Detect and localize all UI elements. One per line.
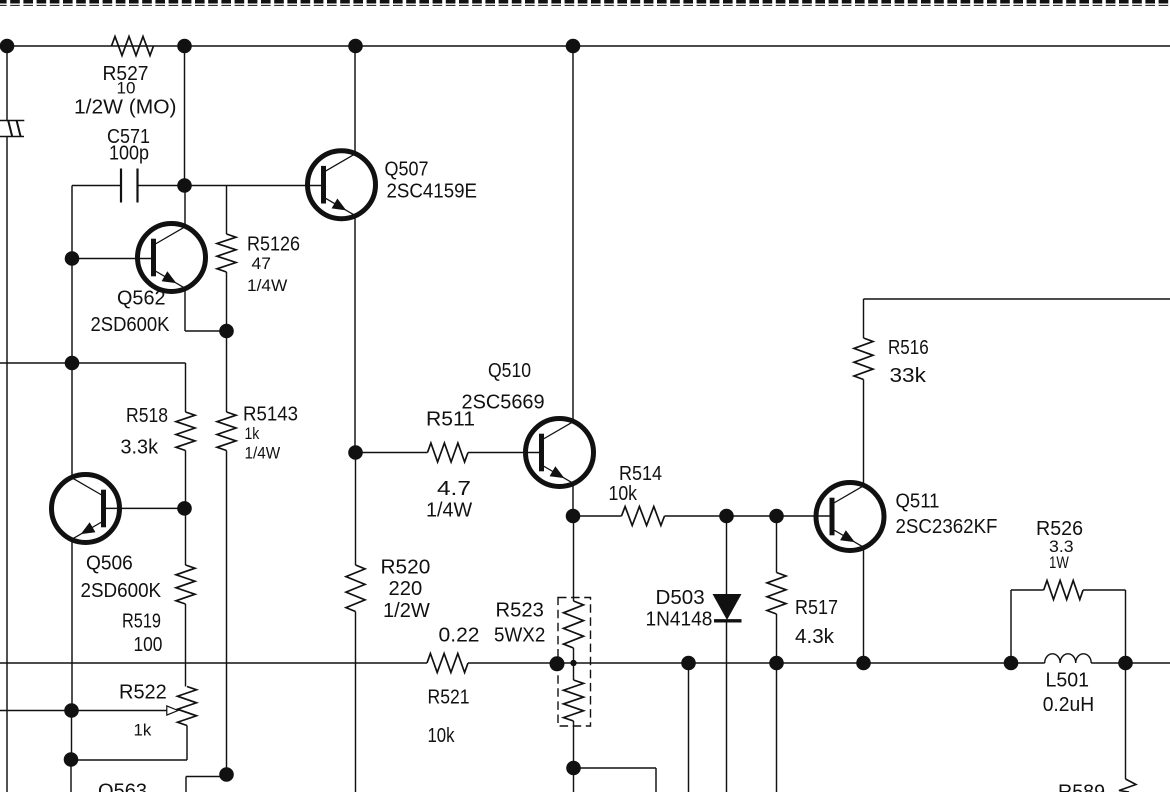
svg-text:R518: R518 — [126, 405, 168, 427]
svg-text:100p: 100p — [109, 143, 149, 165]
node top rail C — [566, 39, 581, 54]
wire R514 node to R517 node — [727, 515, 777, 517]
svg-text:2SD600K: 2SD600K — [91, 314, 171, 336]
resistor R516 — [854, 299, 1170, 387]
wire Q507 emitter column — [354, 216, 356, 453]
svg-text:2SD600K: 2SD600K — [81, 580, 162, 602]
resistor R5143 — [217, 331, 298, 775]
node R522 return — [64, 752, 79, 767]
svg-text:R521: R521 — [428, 687, 470, 709]
svg-text:1/4W: 1/4W — [247, 277, 288, 295]
wire Q562 base — [72, 258, 152, 260]
node R517 bottom — [769, 656, 784, 671]
wire left column lower — [6, 137, 8, 792]
node Q562 base — [65, 251, 80, 266]
svg-text:1W: 1W — [1049, 554, 1069, 572]
wire bus tap 689 down — [688, 663, 690, 792]
node top rail A — [177, 39, 192, 54]
svg-text:R516: R516 — [888, 337, 929, 359]
wire Q511 collector up — [863, 380, 865, 486]
wire C571 node to Q507 base — [185, 185, 323, 187]
resistor R523 — [494, 516, 591, 768]
svg-text:R523: R523 — [496, 600, 544, 622]
svg-text:R519: R519 — [122, 611, 161, 633]
wire Q562 emitter down — [185, 289, 227, 331]
svg-text:4.7: 4.7 — [437, 478, 471, 500]
node left mid — [65, 356, 80, 371]
svg-text:1/2W (MO): 1/2W (MO) — [74, 97, 177, 119]
node Q506 base / R518 / R519 — [177, 501, 192, 516]
wire Q507 emitter column lower — [355, 453, 357, 566]
node bus big — [550, 656, 565, 671]
wire Q506 emitter down — [71, 540, 73, 711]
cable marker — [0, 121, 24, 137]
svg-text:Q510: Q510 — [488, 360, 531, 382]
node bus tap 689 — [681, 656, 696, 671]
svg-text:R589: R589 — [1058, 782, 1105, 792]
svg-text:R5126: R5126 — [247, 234, 300, 256]
svg-text:1k: 1k — [245, 425, 260, 443]
node Q562 emitter / R5126 — [219, 324, 234, 339]
svg-text:Q563: Q563 — [98, 781, 147, 792]
transistor Q510 — [462, 360, 594, 487]
resistor R519 — [122, 508, 195, 686]
node Q511 emitter — [856, 656, 871, 671]
node top rail B — [348, 39, 363, 54]
node R511 branch — [348, 445, 363, 460]
svg-text:R526: R526 — [1036, 518, 1083, 540]
node C571/Q562 collector — [177, 178, 192, 193]
wire R523 bottom right — [574, 768, 657, 792]
wire C571 left to Q562 base node — [71, 186, 73, 259]
svg-text:2SC4159E: 2SC4159E — [387, 181, 478, 203]
wire R517 bottom down — [776, 663, 778, 792]
node Q510 emitter / R514 / R523 — [566, 509, 581, 524]
svg-text:10k: 10k — [428, 725, 456, 747]
resistor R527 — [74, 37, 177, 119]
node R522 wiper — [64, 703, 79, 718]
resistor R589 — [1058, 663, 1136, 792]
resistor R520 — [346, 557, 430, 792]
svg-text:1k: 1k — [134, 722, 153, 740]
svg-text:2SC2362KF: 2SC2362KF — [896, 516, 998, 538]
svg-text:R5143: R5143 — [243, 404, 298, 426]
transistor Q506 — [52, 475, 162, 603]
wire Q511 base — [777, 515, 831, 517]
svg-text:220: 220 — [389, 578, 423, 600]
wire bottom bus — [0, 662, 1170, 664]
svg-text:R517: R517 — [795, 597, 838, 619]
resistor R526 — [1011, 518, 1126, 663]
svg-text:0.2uH: 0.2uH — [1043, 694, 1095, 716]
wire Q562 base node down — [71, 259, 73, 364]
node L501 right — [1118, 656, 1133, 671]
potentiometer R522 — [71, 682, 197, 761]
wire below R522 return — [70, 760, 72, 792]
wire top supply rail — [0, 45, 1170, 47]
transistor Q511 — [816, 483, 998, 551]
svg-text:100: 100 — [134, 634, 163, 656]
wire Q506 base — [102, 507, 185, 509]
svg-text:0.22: 0.22 — [439, 625, 480, 647]
wire wiper node down — [71, 711, 73, 760]
svg-text:D503: D503 — [656, 587, 705, 609]
capacitor C571 — [72, 126, 185, 203]
node R5143 bottom — [219, 767, 234, 782]
svg-text:3.3k: 3.3k — [121, 437, 159, 459]
node top rail left — [0, 39, 14, 54]
resistor R517 — [767, 516, 838, 663]
wire left column upper — [6, 46, 8, 121]
svg-text:Q507: Q507 — [385, 159, 429, 181]
svg-text:10: 10 — [117, 80, 136, 98]
svg-text:R514: R514 — [619, 463, 662, 485]
resistor R514 — [573, 463, 727, 526]
transistor Q563 label — [98, 781, 147, 792]
svg-text:R520: R520 — [381, 557, 431, 579]
svg-text:10k: 10k — [609, 483, 638, 505]
wire Q511 emitter down — [863, 548, 865, 663]
resistor R521 — [427, 625, 480, 748]
svg-text:1/4W: 1/4W — [245, 445, 281, 463]
svg-text:4.3k: 4.3k — [795, 626, 835, 648]
node R523 bottom — [566, 761, 581, 776]
wire R5143 bottom link — [186, 777, 227, 792]
wire Q510 emitter down — [572, 484, 574, 516]
wire Q507 collector up — [354, 46, 356, 153]
transistor Q562 — [91, 224, 206, 337]
wire Q510 collector up — [572, 46, 574, 421]
svg-text:5WX2: 5WX2 — [494, 625, 545, 647]
svg-text:Q506: Q506 — [86, 553, 133, 575]
svg-text:1/2W: 1/2W — [383, 600, 430, 622]
node L501 left — [1004, 656, 1019, 671]
inductor L501 — [1043, 654, 1095, 716]
svg-text:Q562: Q562 — [117, 288, 166, 310]
node R514 / D503 — [719, 509, 734, 524]
wire feeder y710 — [0, 710, 72, 712]
wire left mid down to Q506 — [71, 363, 73, 477]
svg-text:2SC5669: 2SC5669 — [462, 392, 545, 414]
node R517 top / Q511 base — [769, 509, 784, 524]
resistor R5126 — [217, 186, 300, 332]
svg-text:1N4148: 1N4148 — [646, 609, 713, 631]
diode D503 — [646, 516, 742, 792]
transistor Q507 — [308, 151, 478, 219]
wire feeder y363 — [0, 363, 186, 412]
wire Q562 collector up — [184, 186, 186, 227]
svg-text:1/4W: 1/4W — [426, 500, 472, 522]
svg-text:33k: 33k — [890, 365, 928, 387]
svg-text:L501: L501 — [1046, 670, 1090, 692]
wire dashed sheet border — [0, 2, 1170, 6]
wire R523 bottom down — [573, 768, 575, 792]
svg-text:47: 47 — [252, 255, 271, 273]
resistor R518 — [121, 405, 196, 508]
svg-text:R522: R522 — [119, 682, 167, 704]
svg-text:Q511: Q511 — [896, 491, 940, 513]
wire rail to C571 node — [184, 46, 186, 186]
resistor R511 — [356, 409, 541, 522]
